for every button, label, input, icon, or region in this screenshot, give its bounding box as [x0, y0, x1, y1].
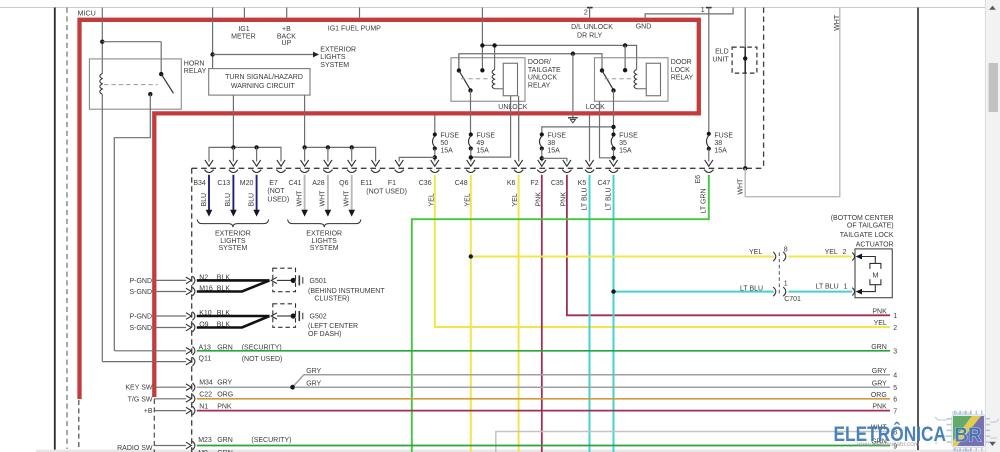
MICU dashed boundary left vertical connector line [191, 168, 193, 452]
lock relay link dashed [605, 78, 635, 80]
svg-text:PNK: PNK [872, 404, 887, 411]
wire 1 tick to fuse 38 [706, 7, 712, 9]
svg-text:T/G SW: T/G SW [128, 396, 153, 403]
fuse 50 output to C36 and F1 branch [434, 149, 436, 162]
row Q11 feed line [102, 361, 186, 363]
door/tailgate unlock relay box [451, 58, 525, 102]
svg-text:C36: C36 [419, 180, 432, 187]
row M16 connector symbol [186, 288, 192, 295]
svg-text:WHT: WHT [834, 14, 841, 31]
svg-text:G502: G502 [310, 313, 327, 320]
wire YEL C48 [470, 175, 472, 452]
svg-text:(BEHIND INSTRUMENT: (BEHIND INSTRUMENT [308, 288, 385, 295]
svg-text:2: 2 [893, 325, 897, 332]
wire LT BLU C701 feed [614, 291, 774, 293]
unlock relay arm output wire to fuse 49 [470, 91, 472, 135]
svg-text:K5: K5 [578, 180, 587, 187]
svg-text:TAILGATE LOCK: TAILGATE LOCK [840, 232, 894, 239]
wire YEL C701 to actuator [788, 256, 852, 258]
svg-text:S-GND: S-GND [129, 325, 152, 332]
relay interconnect wire upper [482, 45, 636, 69]
svg-text:BLU: BLU [201, 193, 208, 207]
pin A28 connector arrow [324, 160, 332, 166]
svg-text:F2: F2 [530, 180, 538, 187]
svg-text:LIGHTS: LIGHTS [220, 238, 246, 245]
turn box left output wire [232, 95, 234, 147]
wire Q6 drop [351, 147, 353, 161]
svg-text:EXTERIOR: EXTERIOR [320, 46, 356, 53]
svg-text:DOOR/: DOOR/ [528, 59, 551, 66]
wire IG1 METER tick [243, 8, 245, 20]
BLK wires to G502 [197, 315, 270, 318]
wire ORG line 6 [197, 398, 890, 400]
row feed lines from red bus [154, 279, 186, 281]
svg-text:RADIO SW: RADIO SW [117, 445, 153, 452]
svg-text:IG1 FUEL PUMP: IG1 FUEL PUMP [328, 26, 381, 33]
brace exterior lights group 1 [197, 219, 268, 227]
distribution wire left group [209, 147, 281, 153]
svg-text:RELAY: RELAY [671, 75, 694, 82]
svg-text:DR RLY: DR RLY [577, 32, 602, 39]
svg-text:BR: BR [955, 425, 983, 447]
svg-text:6: 6 [893, 397, 897, 404]
svg-text:WARNING CIRCUIT: WARNING CIRCUIT [231, 83, 296, 90]
svg-text:FUSE: FUSE [440, 133, 459, 140]
wire LT GRN E6 loop [412, 175, 709, 452]
WHT wire stub at 327.9 [327, 175, 329, 211]
app top border [0, 7, 1000, 9]
horn relay mechanical link dashed [104, 84, 158, 86]
svg-text:(NOT USED): (NOT USED) [366, 189, 407, 196]
svg-text:RELAY: RELAY [528, 82, 551, 89]
wire LT BLU C47 [613, 175, 615, 452]
dashed wire below red end mid [153, 399, 155, 452]
wire WHT line 8 [496, 432, 890, 452]
wire YEL K6 [518, 175, 520, 452]
svg-text:FUSE: FUSE [476, 133, 495, 140]
svg-text:OF DASH): OF DASH) [308, 331, 341, 338]
svg-text:7: 7 [893, 408, 897, 415]
svg-text:PNK: PNK [217, 403, 232, 410]
arrow to exterior lights system top [213, 54, 314, 56]
row A13 feed line [114, 350, 186, 352]
wire MICU row to ELD top [744, 8, 746, 169]
row K10 connector symbol [186, 313, 192, 320]
C701 dashed link [778, 253, 780, 296]
svg-text:ORG: ORG [871, 392, 887, 399]
svg-text:FUSE: FUSE [619, 133, 638, 140]
svg-text:UNIT: UNIT [712, 56, 729, 63]
pin C35 connector arrow [563, 160, 571, 166]
row A13 connector symbol [186, 348, 192, 355]
svg-text:C47: C47 [597, 180, 610, 187]
wire GRY line 5 [295, 386, 890, 388]
row N1 connector symbol [186, 407, 192, 414]
unlock relay link dashed [461, 78, 491, 80]
svg-text:5: 5 [893, 385, 897, 392]
svg-text:YEL: YEL [825, 249, 838, 256]
svg-text:C13: C13 [217, 180, 230, 187]
svg-text:4: 4 [893, 373, 897, 380]
svg-text:(LEFT CENTER: (LEFT CENTER [308, 323, 358, 330]
actuator motor wiring [862, 257, 876, 264]
svg-text:P-GND: P-GND [129, 314, 152, 321]
svg-text:15A: 15A [440, 148, 453, 155]
svg-text:YEL: YEL [749, 249, 762, 256]
svg-text:C22: C22 [199, 391, 212, 398]
unlock relay coil [494, 46, 496, 70]
svg-text:1: 1 [844, 283, 848, 290]
svg-text:USED): USED) [267, 196, 289, 203]
svg-text:K6: K6 [507, 180, 516, 187]
watermark chip graphic [935, 411, 999, 452]
svg-text:3: 3 [893, 349, 897, 356]
red highlight wire +B path [80, 20, 699, 399]
svg-text:GRN: GRN [871, 344, 887, 351]
wire LT BLU K5 [589, 175, 591, 452]
wire C13 drop [232, 147, 234, 161]
svg-text:www.eletronicabr.com: www.eletronicabr.com [856, 441, 919, 448]
WHT wire stub at 304.6 [304, 175, 306, 211]
svg-text:HORN: HORN [184, 61, 205, 68]
bottom gray strip [36, 450, 1000, 452]
wire PNK line 7 [197, 410, 890, 412]
svg-text:8: 8 [784, 246, 788, 253]
BLU wire stub at 256.6 [256, 175, 258, 211]
svg-text:ACTUATOR: ACTUATOR [856, 241, 894, 248]
door lock relay box [595, 58, 669, 102]
wire PNK C35 to line 1 [567, 175, 890, 315]
connector C701 symbols [773, 252, 776, 261]
svg-text:LOCK: LOCK [586, 104, 605, 111]
unlock relay fixed contact [457, 68, 461, 72]
scrollbar down arrow [989, 442, 996, 446]
svg-text:15A: 15A [547, 148, 560, 155]
svg-text:EXTERIOR: EXTERIOR [215, 230, 251, 237]
svg-text:ORG: ORG [217, 391, 233, 398]
wire GRN line 9 [197, 445, 890, 447]
actuator pin 2 entry [852, 253, 854, 261]
svg-text:1: 1 [701, 7, 705, 14]
ELD unit dashed box [732, 47, 757, 73]
svg-text:LT BLU: LT BLU [581, 187, 588, 210]
scrollbar up arrow [989, 6, 996, 10]
K6 wire from red bus [518, 116, 520, 162]
distribution wire right group [305, 147, 376, 153]
svg-text:GND: GND [636, 24, 652, 31]
svg-text:03a 40at: 03a 40at [953, 448, 972, 452]
wire A28 drop [327, 147, 329, 161]
G502 dashed box [273, 304, 296, 328]
svg-text:E11: E11 [360, 180, 372, 187]
svg-text:15A: 15A [476, 148, 489, 155]
scrollbar thumb [989, 63, 998, 112]
svg-text:N1: N1 [199, 403, 208, 410]
pin Q6 connector arrow [348, 160, 356, 166]
svg-text:FUSE: FUSE [714, 133, 733, 140]
wire YEL C36 to line 2 [435, 175, 890, 327]
fuse 38 second output to E6 [708, 149, 710, 162]
svg-text:LOCK: LOCK [671, 67, 690, 74]
svg-text:YEL: YEL [874, 320, 887, 327]
fuse 38 first [540, 132, 544, 136]
svg-text:A28: A28 [312, 180, 325, 187]
unlock relay A pin wire from top [481, 8, 483, 70]
wire C41 drop [304, 147, 306, 161]
svg-text:GRY: GRY [306, 368, 321, 375]
svg-text:P-GND: P-GND [129, 278, 152, 285]
pin C13 connector arrow [229, 160, 237, 166]
wire GRY key sw with split [197, 386, 291, 388]
svg-text:BLU: BLU [248, 193, 255, 207]
unlock relay switch arm [459, 71, 470, 90]
wire PNK F2 [541, 175, 543, 452]
pin C36 connector arrow [431, 160, 439, 166]
wire B34 drop [208, 153, 210, 162]
svg-text:15A: 15A [714, 148, 727, 155]
row N2 connector symbol [186, 277, 192, 284]
WHT wire stub at 351.7 [351, 175, 353, 211]
svg-text:UNLOCK: UNLOCK [528, 75, 558, 82]
K5 wire from red bus [589, 116, 591, 162]
svg-text:S-GND: S-GND [129, 289, 152, 296]
unlock relay contact pin wire b to K6 [518, 96, 520, 162]
svg-text:35: 35 [619, 140, 627, 147]
svg-text:WHT: WHT [320, 190, 327, 207]
G501 dashed box [273, 268, 296, 292]
svg-text:M23: M23 [198, 437, 212, 444]
ground symbol [568, 117, 578, 119]
left dashed page boundary [66, 8, 68, 450]
svg-text:GRY: GRY [872, 368, 887, 375]
lock relay contact rectangle [646, 63, 660, 96]
svg-text:1: 1 [784, 281, 788, 288]
svg-text:LT BLU: LT BLU [605, 187, 612, 210]
scrollbar track [986, 0, 1000, 452]
turn box right output wire [304, 95, 306, 147]
svg-text:DOOR: DOOR [671, 59, 692, 66]
fuse 50 feed from red bus [434, 116, 436, 135]
G501 splice dot [291, 278, 296, 283]
wire 2 D/L UNLOCK DR RLY [587, 7, 593, 9]
wire GND jog to top [645, 8, 733, 19]
svg-text:49: 49 [476, 140, 484, 147]
brace exterior lights group 2 [288, 219, 361, 227]
lock relay contact pin wire to C47 join [600, 101, 612, 158]
svg-text:E7: E7 [269, 180, 278, 187]
svg-text:SYSTEM: SYSTEM [219, 245, 248, 252]
lock relay fixed contact [600, 68, 604, 72]
svg-text:LT BLU: LT BLU [740, 285, 763, 292]
svg-text:LT BLU: LT BLU [816, 283, 839, 290]
svg-text:38: 38 [547, 140, 555, 147]
svg-text:FUSE: FUSE [547, 133, 566, 140]
pin E6 connector arrow [705, 160, 713, 166]
BLK wires to G501 [197, 279, 270, 282]
fuse 50 [433, 132, 437, 136]
svg-text:(SECURITY): (SECURITY) [251, 437, 291, 444]
pin K6 connector arrow [515, 160, 523, 166]
svg-text:G501: G501 [310, 278, 327, 285]
svg-text:PNK: PNK [872, 308, 887, 315]
horn relay box [89, 59, 181, 109]
svg-text:WHT: WHT [344, 190, 351, 207]
svg-text:E6: E6 [695, 175, 702, 184]
svg-text:WHT: WHT [737, 178, 744, 195]
pin C48 connector arrow [467, 160, 475, 166]
svg-text:UP: UP [282, 40, 292, 47]
pin K5 connector arrow [585, 160, 593, 166]
row Q11 connector symbol [186, 358, 192, 365]
horn relay coil feed wire [101, 8, 103, 74]
svg-text:METER: METER [231, 34, 256, 41]
G502 splice dot [291, 313, 296, 318]
svg-text:GRY: GRY [872, 380, 887, 387]
svg-text:WHT: WHT [296, 190, 303, 207]
unlock relay contact pin wire a [472, 96, 511, 157]
wire GRN security line 3 [197, 350, 890, 352]
row M34 connector symbol [186, 384, 192, 391]
svg-text:CLUSTER): CLUSTER) [314, 295, 349, 302]
horn relay switch output wire to A13 [114, 94, 150, 351]
svg-text:M: M [872, 271, 878, 280]
svg-text:TURN SIGNAL/HAZARD: TURN SIGNAL/HAZARD [225, 74, 303, 81]
lock relay arm output wire to fuse 35 [613, 91, 615, 135]
pin F1 connector arrow [395, 160, 403, 166]
pin E7 connector arrow [277, 160, 285, 166]
svg-text:M34: M34 [199, 380, 213, 387]
actuator pin 1 entry [852, 288, 854, 296]
svg-text:(NOT USED): (NOT USED) [242, 356, 283, 363]
fuse 49 [469, 132, 473, 136]
BLU wire stub at 209 [208, 175, 210, 211]
dashed wire below red end left [78, 400, 80, 449]
fuse 38 first feed jog [542, 127, 614, 134]
svg-text:ELD: ELD [715, 49, 729, 56]
svg-text:2: 2 [843, 249, 847, 256]
fuse 38 output to F2 and C35 branch [541, 149, 543, 162]
relay contact-to-contact wire with ground tap [459, 54, 602, 69]
horn relay coil [100, 74, 103, 95]
row C22 connector symbol [186, 396, 192, 403]
svg-text:LIGHTS: LIGHTS [320, 54, 346, 61]
pin B34 connector arrow [205, 160, 213, 166]
ground tap wire [572, 54, 574, 118]
svg-text:GRY: GRY [306, 380, 321, 387]
svg-text:EXTERIOR: EXTERIOR [306, 230, 342, 237]
svg-text:Q6: Q6 [339, 180, 348, 187]
svg-text:BLU: BLU [225, 193, 232, 207]
row M23 connector symbol [186, 442, 192, 449]
wire YEL C701 feed [471, 256, 774, 258]
right page border line [917, 8, 919, 451]
svg-text:KEY SW: KEY SW [125, 385, 152, 392]
svg-text:GRN: GRN [217, 437, 233, 444]
svg-text:C35: C35 [551, 180, 564, 187]
svg-text:38: 38 [714, 140, 722, 147]
svg-text:1: 1 [893, 313, 897, 320]
motor M symbol [870, 263, 881, 269]
fuse 35 [611, 132, 615, 136]
tailgate lock actuator box [855, 249, 892, 298]
fuse 38 second feed from pin 1 [708, 8, 710, 135]
svg-text:+B: +B [282, 26, 291, 33]
svg-text:LIGHTS: LIGHTS [312, 238, 338, 245]
svg-text:2: 2 [584, 9, 588, 16]
svg-text:M20: M20 [240, 180, 254, 187]
svg-text:MICU: MICU [78, 9, 96, 18]
svg-text:SYSTEM: SYSTEM [310, 245, 339, 252]
svg-text:GRY: GRY [217, 380, 232, 387]
wire from red bus to turn box [212, 8, 214, 69]
lock relay switch arm [602, 71, 613, 90]
unlock relay contact rectangle [503, 63, 517, 96]
svg-text:IG1: IG1 [238, 26, 249, 33]
horn relay switch [159, 72, 163, 76]
fuse 38 second [707, 132, 711, 136]
svg-text:C701: C701 [784, 296, 801, 303]
svg-text:(BOTTOM CENTER: (BOTTOM CENTER [831, 215, 894, 222]
turn signal hazard warning circuit box [209, 69, 310, 96]
svg-text:C48: C48 [455, 180, 468, 187]
ELD unit internal wire [744, 47, 746, 73]
svg-text:F1: F1 [388, 180, 396, 187]
wire E7 drop [280, 153, 282, 162]
wire E11 drop [375, 153, 377, 162]
svg-text:TAILGATE: TAILGATE [528, 67, 561, 74]
wire LT BLU C701 to actuator [788, 291, 852, 293]
pin C47 connector arrow [609, 160, 617, 166]
pin F2 connector arrow [538, 160, 546, 166]
svg-text:+B: +B [144, 408, 153, 415]
svg-text:LT GRN: LT GRN [701, 188, 708, 213]
diagram left solid border [54, 8, 56, 451]
svg-text:UNLOCK: UNLOCK [498, 104, 528, 111]
WHT wire jog from MICU row [743, 166, 747, 170]
svg-text:C41: C41 [289, 180, 302, 187]
horn relay coil wire to Q11 [101, 94, 103, 361]
svg-text:OF TAILGATE): OF TAILGATE) [847, 223, 894, 230]
wire IG1 FUEL PUMP tick [359, 8, 361, 20]
BLU wire stub at 233.4 [232, 175, 234, 211]
svg-text:D/L UNLOCK: D/L UNLOCK [571, 24, 613, 31]
svg-text:SYSTEM: SYSTEM [320, 62, 349, 69]
wire GRY line 4 [304, 374, 890, 376]
wire M20 drop [256, 147, 258, 161]
pin E11 connector arrow [372, 160, 380, 166]
MICU connector row dashed line [192, 167, 764, 169]
pin C41 connector arrow [301, 160, 309, 166]
svg-text:B34: B34 [193, 180, 206, 187]
lock relay coil [634, 70, 637, 89]
svg-text:(NOT: (NOT [267, 188, 285, 195]
svg-text:50: 50 [440, 140, 448, 147]
pin M20 connector arrow [253, 160, 261, 166]
wire +B BACK UP tick [286, 8, 288, 20]
MICU dashed boundary right vertical [763, 8, 765, 169]
unlock relay coil to contact bar [495, 88, 504, 90]
svg-text:Q11: Q11 [199, 355, 212, 362]
svg-text:15A: 15A [619, 148, 632, 155]
svg-text:RELAY: RELAY [184, 68, 207, 75]
row Q9 connector symbol [186, 324, 192, 331]
